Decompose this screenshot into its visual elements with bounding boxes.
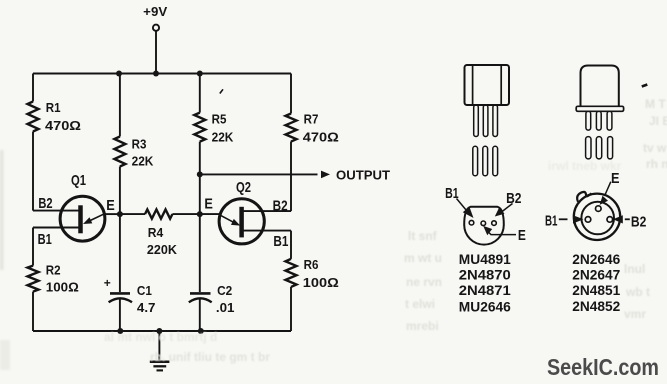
wire E branch Q2 bbox=[200, 213, 221, 215]
transistor Q2 bbox=[219, 199, 264, 244]
svg-text:MU2646: MU2646 bbox=[459, 298, 511, 314]
svg-text:22K: 22K bbox=[132, 155, 154, 169]
svg-text:t elwi: t elwi bbox=[405, 297, 435, 311]
svg-text:+: + bbox=[104, 276, 111, 290]
junction bottom rail C2 bbox=[198, 328, 204, 334]
svg-text:ne rvn: ne rvn bbox=[406, 275, 442, 289]
wire B1 branch Q2 bbox=[242, 230, 291, 232]
package TO-18 index tab bbox=[577, 192, 591, 202]
svg-text:B1: B1 bbox=[38, 231, 52, 248]
pin E TO-18 bbox=[596, 206, 602, 212]
svg-text:E: E bbox=[204, 196, 213, 213]
svg-text:wb t: wb t bbox=[625, 285, 650, 299]
capacitor C2 bbox=[190, 292, 211, 295]
svg-text:SeekIC.com: SeekIC.com bbox=[547, 354, 659, 380]
svg-text:irwl tneb wkr: irwl tneb wkr bbox=[548, 159, 622, 173]
svg-text:lt snf: lt snf bbox=[408, 229, 438, 243]
paper artifact left edge bbox=[0, 150, 4, 270]
pin B1 U1 bbox=[469, 220, 474, 225]
arrowhead pointer E U1 bbox=[483, 226, 492, 235]
junction bottom rail ground bbox=[156, 328, 162, 334]
ground bbox=[158, 331, 160, 362]
bleed-through artifacts bbox=[104, 97, 667, 364]
svg-text:E: E bbox=[518, 227, 526, 244]
wire B2 branch Q1 bbox=[33, 210, 80, 212]
wire left rail lower bbox=[32, 228, 34, 332]
wire B1 branch Q1 bbox=[33, 227, 80, 229]
svg-text:tv w: tv w bbox=[643, 141, 667, 155]
svg-text:OUTPUT: OUTPUT bbox=[336, 167, 390, 182]
resistor R6 bbox=[286, 259, 297, 287]
package TO-18 bottom view inner bbox=[581, 202, 614, 235]
wire right rail upper bbox=[290, 74, 292, 212]
junction dot top rail supply bbox=[153, 71, 159, 77]
arrowhead emitter Q2 bbox=[231, 219, 240, 226]
arrowhead pointer B1 U1 bbox=[463, 207, 474, 219]
wire R3/C1 column bbox=[119, 74, 121, 332]
svg-text:2N4871: 2N4871 bbox=[459, 282, 511, 298]
svg-text:2N2646: 2N2646 bbox=[572, 251, 620, 267]
pin B1 TO-18 bbox=[585, 217, 591, 223]
svg-text:R5: R5 bbox=[212, 113, 227, 127]
package TO-18 can Q bbox=[581, 66, 619, 107]
resistor R5 bbox=[194, 113, 205, 142]
package TO-18 bottom view outer bbox=[574, 194, 620, 240]
svg-text:B2: B2 bbox=[273, 198, 288, 215]
svg-text:Q2: Q2 bbox=[236, 179, 251, 196]
svg-text:R2: R2 bbox=[46, 263, 61, 277]
svg-text:470Ω: 470Ω bbox=[45, 119, 81, 133]
pin B2 U1 bbox=[492, 221, 497, 226]
svg-text:C1: C1 bbox=[137, 284, 152, 298]
junction dot top rail right bbox=[197, 71, 203, 77]
power terminal +9V bbox=[153, 25, 159, 31]
resistor R7 bbox=[286, 114, 297, 142]
svg-text:B2: B2 bbox=[506, 190, 521, 207]
svg-text:Q1: Q1 bbox=[71, 172, 86, 189]
svg-text:B1: B1 bbox=[445, 185, 459, 202]
resistor R4 bbox=[120, 213, 200, 215]
svg-text:B1: B1 bbox=[273, 233, 288, 250]
package TO-92 bottom view bbox=[464, 207, 504, 245]
svg-text:B2: B2 bbox=[631, 213, 647, 230]
package TO-92 leads row2 bbox=[473, 146, 478, 176]
wire E branch Q1 bbox=[105, 213, 120, 215]
dash B2 TO-18 bbox=[625, 218, 630, 220]
junction node E2 bbox=[197, 211, 203, 217]
svg-text:2N4870: 2N4870 bbox=[459, 266, 511, 282]
wire supply stem bbox=[155, 31, 157, 73]
pointer B2 U1 bbox=[502, 204, 513, 213]
svg-text:R1: R1 bbox=[46, 101, 61, 115]
package TO-18 leads row1 bbox=[586, 111, 591, 130]
wire bottom rail bbox=[33, 330, 291, 332]
svg-text:B2: B2 bbox=[38, 195, 52, 212]
svg-text:.01: .01 bbox=[216, 301, 235, 315]
svg-text:mrebi: mrebi bbox=[406, 319, 439, 333]
junction node E1 bbox=[117, 211, 123, 217]
arrowhead pointer B2 U1 bbox=[495, 207, 505, 216]
svg-text:vmr: vmr bbox=[624, 307, 646, 321]
svg-text:100Ω: 100Ω bbox=[303, 276, 339, 290]
svg-text:R6: R6 bbox=[304, 258, 319, 272]
svg-text:R3: R3 bbox=[132, 137, 147, 151]
resistor R3 bbox=[114, 137, 125, 167]
svg-text:R4: R4 bbox=[148, 226, 164, 240]
junction output tap bbox=[197, 171, 203, 177]
arrowhead B2 TO-18 bbox=[613, 215, 623, 223]
package TO-18 leads row2 bbox=[586, 137, 591, 159]
svg-text:M T: M T bbox=[645, 97, 666, 111]
artifact dash top right bbox=[642, 85, 648, 87]
svg-text:2N4852: 2N4852 bbox=[572, 298, 620, 314]
svg-text:C2: C2 bbox=[217, 284, 232, 298]
junction dot top rail left bbox=[116, 71, 122, 77]
arrowhead B1 TO-18 bbox=[573, 215, 584, 223]
svg-text:al mt nwl o t bmrtj d: al mt nwl o t bmrtj d bbox=[104, 330, 217, 344]
resistor R1 bbox=[28, 102, 39, 132]
svg-text:rb. unif tliu te gm t br: rb. unif tliu te gm t br bbox=[150, 350, 270, 364]
arrowhead output bbox=[321, 171, 330, 179]
wire left rail upper bbox=[32, 74, 34, 211]
svg-text:lnul: lnul bbox=[624, 262, 645, 276]
wire B2 branch Q2 bbox=[242, 210, 291, 212]
wire right rail lower bbox=[290, 231, 292, 331]
wire R5/C2 column bbox=[199, 74, 201, 332]
svg-text:100Ω: 100Ω bbox=[46, 281, 79, 295]
svg-text:E: E bbox=[106, 197, 115, 214]
svg-text:470Ω: 470Ω bbox=[303, 131, 339, 145]
pointer E U1 bbox=[488, 231, 517, 235]
svg-text:22K: 22K bbox=[212, 131, 234, 145]
dash B1 TO-18 bbox=[559, 218, 568, 220]
svg-text:220K: 220K bbox=[147, 243, 177, 257]
arrowhead pointer E TO-18 bbox=[600, 196, 608, 205]
resistor R2 bbox=[28, 266, 39, 292]
pointer E TO-18 bbox=[605, 182, 611, 196]
capacitor C1 bbox=[110, 292, 130, 295]
svg-text:rh n: rh n bbox=[646, 157, 667, 171]
pin B2 TO-18 bbox=[607, 217, 613, 223]
svg-text:2N2647: 2N2647 bbox=[572, 267, 620, 283]
wire top rail bbox=[33, 73, 291, 75]
pointer B1 U1 bbox=[457, 199, 467, 211]
arrowhead emitter Q1 bbox=[83, 217, 92, 224]
package TO-92 leads row1 bbox=[474, 105, 479, 137]
svg-text:m wt u: m wt u bbox=[404, 251, 442, 265]
package TO-92 body U1 bbox=[465, 65, 510, 105]
svg-text:+9V: +9V bbox=[143, 4, 167, 19]
svg-text:MU4891: MU4891 bbox=[459, 251, 511, 267]
transistor Q1 bbox=[60, 196, 105, 241]
svg-text:4.7: 4.7 bbox=[137, 301, 156, 315]
svg-text:2N4851: 2N4851 bbox=[572, 282, 620, 298]
pin E U1 bbox=[481, 221, 486, 226]
svg-text:JI B: JI B bbox=[649, 114, 667, 128]
wire output tap bbox=[200, 173, 318, 175]
svg-text:B1: B1 bbox=[545, 212, 558, 229]
svg-text:R7: R7 bbox=[304, 113, 319, 127]
junction bottom rail C1 bbox=[117, 328, 123, 334]
artifact tick bbox=[220, 89, 223, 93]
